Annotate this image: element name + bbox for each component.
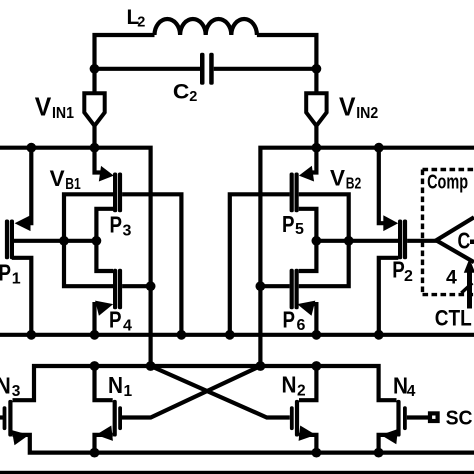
svg-text:4: 4 [123,317,132,334]
wire P5 gate left to bottom rail [230,194,290,334]
transistor N1 [95,400,122,443]
node P2 source feed on VIN2 rail [374,143,384,153]
svg-text:2: 2 [404,268,413,285]
wire N2 gate cross-couple diagonal [151,366,290,418]
wire P6 source arrow feed [312,304,316,335]
wire P5 source feed [308,148,316,173]
transistor P5 [290,166,314,212]
node VB1 junction [59,236,69,246]
node VIN2 column on rail [312,143,322,153]
svg-text:P: P [109,307,122,333]
wire P2 gate to comparator [407,239,436,243]
svg-text:N: N [0,372,11,398]
wire P1 gate rail [14,239,97,243]
wire P6 gate left [260,284,289,288]
wire P2 source feed [379,148,388,224]
svg-text:2: 2 [189,89,197,105]
svg-text:N: N [282,372,297,398]
svg-text:CTL: CTL [435,306,472,331]
wire C2 right [214,67,317,71]
node N1 source on NMOS bottom rail [90,448,100,458]
wire N3 gate stub [0,415,4,419]
svg-text:P: P [0,260,11,286]
wire middle line to P2 gate [316,239,398,243]
wire NMOS bottom rail with N3 source [13,435,474,453]
wire N2 drain feed [299,366,316,400]
wire P1 drain [12,258,31,335]
bottom crop strip [0,471,474,474]
svg-text:B2: B2 [346,176,362,193]
wire PMOS bottom rail [0,333,474,337]
comparator box dashed [423,170,474,295]
node N2 drain on NMOS top rail [312,361,322,371]
wire N4 source [379,435,397,453]
svg-text:N: N [108,372,123,398]
node P1 source feed on VIN1 rail [26,143,36,153]
svg-text:4: 4 [407,383,416,400]
node P4 gate junction [146,281,156,291]
svg-text:P: P [282,211,295,237]
node N2 source on NMOS bottom rail [312,448,322,458]
wire N1 drain feed [95,366,113,400]
wire NMOS top rail with N3 N4 drain feeds [13,366,397,400]
svg-text:6: 6 [297,317,306,334]
wire P4 gate [122,284,151,288]
node P6 gate junction [256,281,266,291]
svg-text:P: P [110,212,123,238]
node P4 arrow feed on bottom rail [90,330,100,340]
transistor P3 [99,166,122,212]
wire N1 gate cross-couple diagonal [122,366,260,418]
comparator C dash [470,240,474,245]
pad VIN1 [84,93,104,126]
node VB2 junction [344,236,354,246]
node N1 drain on NMOS top rail [90,361,100,371]
wire P6 top feed [299,241,317,271]
capacitor C2 [200,53,214,85]
wire VB1 link [64,194,113,286]
wire VB2 link [299,194,349,286]
wire P1 source feed [22,148,31,224]
wire P3 right to bottom rail [122,194,181,334]
wire pad VIN2 upper [314,69,318,94]
comparator triangle [436,217,474,262]
wire P3 source feed [95,148,104,173]
wire pad VIN2 lower [314,124,318,150]
node N4 source on NMOS bottom rail [374,448,384,458]
wire N1 source [95,435,113,453]
transistor N4 [380,400,407,444]
node VIN1 drop on NMOS top rail [146,361,156,371]
svg-text:V: V [339,93,356,121]
svg-text:IN1: IN1 [52,105,74,122]
wire tank left vertical [95,35,155,69]
svg-text:V: V [35,93,52,121]
SC port square [430,413,438,421]
svg-text:P: P [392,257,405,283]
svg-text:V: V [330,166,345,191]
svg-text:C: C [173,81,190,104]
node P1 drain on bottom rail [26,330,36,340]
pad VIN2 [306,93,326,126]
transistor N3 [3,400,31,445]
wire N2 source [299,435,316,453]
svg-text:2: 2 [137,14,145,30]
svg-text:3: 3 [12,383,21,400]
node VIN1 column on rail [90,143,100,153]
wire P2 drain [379,258,399,335]
svg-text:1: 1 [12,270,21,287]
node P5 bulk drop on bottom rail [225,330,235,340]
node VIN2 drop on NMOS top rail [256,361,266,371]
wire pad VIN1 lower [92,124,96,150]
svg-text:B1: B1 [65,176,81,193]
transistor P2 [383,215,407,259]
CTL bus arrow [461,259,474,309]
node P3 bulk drop on bottom rail [177,330,187,340]
wire right VIN2 rail and drop [260,148,474,366]
transistor P4 [95,269,122,316]
svg-text:4: 4 [446,267,457,289]
node P6 arrow feed on bottom rail [312,330,322,340]
wire N4 gate to SC [407,415,429,419]
node VIN2 junction [312,64,322,74]
node P3 drain / P1 gate junction [92,236,102,246]
inductor L2 [155,19,257,35]
svg-text:P: P [283,307,296,333]
wire pad VIN1 upper [92,69,96,94]
svg-text:1: 1 [124,383,133,400]
svg-text:IN2: IN2 [356,105,378,122]
svg-text:Comp: Comp [427,171,468,194]
wire left VIN1 rail and drop [0,148,151,366]
wire C2 left [95,67,201,71]
node VIN1 junction [90,64,100,74]
transistor N2 [290,400,317,443]
svg-text:C: C [458,228,471,254]
svg-text:2: 2 [297,383,306,400]
transistor P6 [290,269,316,316]
wire tank right vertical [257,35,317,69]
wire P5 drain [299,209,317,241]
svg-text:SC: SC [446,407,473,430]
transistor P1 [5,215,31,259]
wire P4 source arrow feed [95,304,100,335]
svg-text:3: 3 [123,222,132,239]
wire P3 drain to P4 [96,209,113,271]
svg-text:5: 5 [295,221,304,238]
node P5 drain on middle line [312,236,322,246]
svg-text:V: V [50,166,65,191]
node P2 drain on bottom rail [374,330,384,340]
